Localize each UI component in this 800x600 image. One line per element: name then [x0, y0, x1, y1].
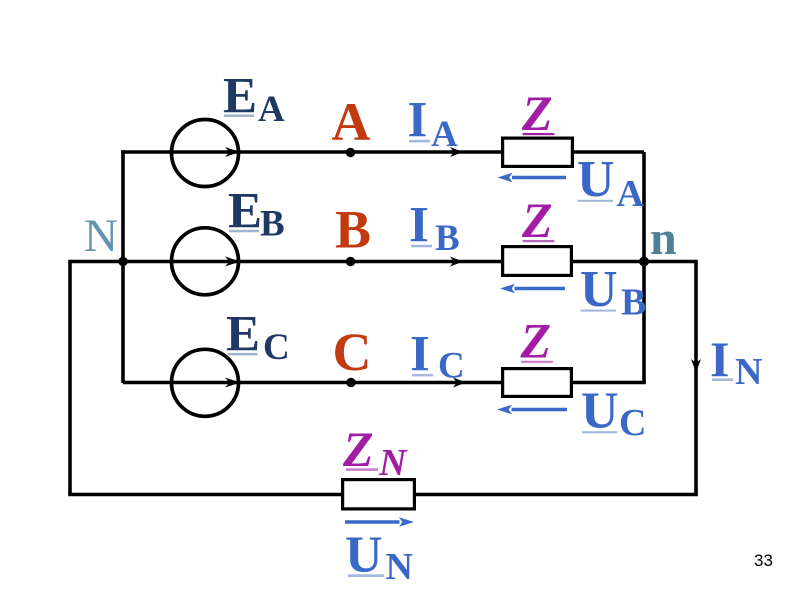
current arrowhead I_C on row C: [453, 378, 466, 388]
svg-text:Z: Z: [520, 313, 552, 369]
impedance box Z_N neutral: [343, 480, 415, 509]
source E_B circle: [172, 228, 239, 295]
node dot A: [346, 148, 355, 157]
EMF arrowhead inside E_B: [225, 257, 240, 267]
current arrowhead I_N on right outer wire: [691, 359, 701, 373]
impedance box Z phase C: [503, 369, 572, 397]
wire left outer vertical: [68, 260, 72, 495]
svg-text:A: A: [332, 92, 371, 152]
node dot B: [346, 257, 355, 266]
svg-text:U: U: [580, 261, 618, 318]
wire row B horizontal: [70, 260, 696, 264]
EMF arrowhead inside E_A: [225, 147, 240, 157]
svg-text:33: 33: [754, 551, 773, 570]
voltage arrow U_N: [345, 520, 400, 524]
EMF arrowhead inside E_C: [225, 378, 240, 388]
svg-text:A: A: [617, 173, 645, 215]
wire row A horizontal: [121, 150, 644, 154]
wire row C horizontal: [123, 381, 646, 385]
svg-text:C: C: [619, 402, 646, 444]
svg-text:U: U: [577, 151, 615, 208]
voltage arrow U_A: [512, 176, 566, 180]
svg-text:B: B: [435, 218, 460, 259]
wire bottom neutral horizontal: [68, 493, 698, 497]
svg-text:N: N: [735, 351, 762, 393]
node dot C: [346, 378, 355, 387]
current arrowhead I_A on row A: [450, 147, 463, 157]
svg-text:A: A: [258, 89, 285, 130]
svg-text:n: n: [650, 212, 677, 265]
impedance box Z phase A: [503, 138, 573, 166]
svg-text:Z: Z: [521, 85, 553, 141]
svg-text:N: N: [386, 546, 413, 588]
svg-text:U: U: [581, 383, 619, 440]
node dot n (right bus, row B): [639, 257, 649, 267]
wire right outer vertical (neutral return): [694, 260, 698, 495]
voltage arrow U_C: [512, 408, 568, 412]
svg-text:C: C: [438, 346, 465, 387]
svg-text:C: C: [263, 327, 290, 368]
wire right bus vertical: [642, 152, 646, 383]
source E_C circle: [172, 349, 239, 416]
svg-text:N: N: [84, 210, 118, 262]
impedance box Z phase B: [503, 247, 572, 276]
svg-text:A: A: [431, 114, 458, 155]
voltage arrow U_B: [515, 287, 566, 291]
svg-text:C: C: [333, 322, 372, 382]
wire left bus vertical: [121, 150, 125, 383]
source E_A circle: [172, 120, 239, 187]
svg-text:B: B: [335, 200, 371, 260]
svg-text:B: B: [621, 282, 646, 324]
svg-text:N: N: [378, 442, 408, 484]
svg-text:B: B: [260, 204, 285, 245]
node dot N (left bus, row B): [118, 257, 127, 266]
current arrowhead I_B on row B: [450, 257, 463, 267]
svg-text:Z: Z: [521, 192, 553, 248]
